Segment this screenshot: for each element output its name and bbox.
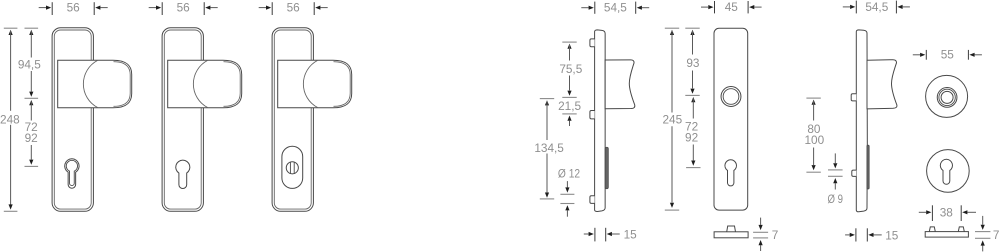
dimension 7 (rosette thickness): [975, 216, 999, 252]
svg-text:100: 100: [804, 133, 824, 147]
svg-text:7: 7: [993, 228, 1000, 242]
screw boss 3 (side view A): [590, 196, 595, 204]
svg-text:21,5: 21,5: [558, 99, 581, 113]
knob rosette Ø 55: [926, 75, 968, 117]
svg-text:56: 56: [67, 1, 81, 15]
svg-text:Ø 12: Ø 12: [558, 167, 580, 181]
dimension Ø 9 (boss diameter, side view B): [827, 153, 843, 205]
dimension 54,5 (side view B width): [843, 0, 910, 14]
handle bearing ring (plate 45): [721, 87, 741, 107]
svg-text:45: 45: [725, 0, 739, 14]
svg-text:93: 93: [686, 56, 700, 70]
svg-text:92: 92: [685, 130, 698, 144]
dimension 45 (width): [701, 0, 762, 14]
dimension 55 (rosette diameter): [913, 48, 982, 62]
cylinder projection bar (side view A): [605, 147, 608, 189]
dimension 80 / 100 (axis to boss, side view B): [804, 98, 824, 172]
key rosette with profile cylinder: [927, 150, 970, 193]
svg-text:92: 92: [25, 131, 38, 145]
dimension Ø 12 (boss diameter): [558, 167, 580, 217]
svg-text:15: 15: [624, 228, 638, 242]
knob profile (side view A): [605, 60, 635, 109]
side view B: rosette-version profile with knob: [856, 30, 867, 212]
dimension 245 (total height, plate 45): [662, 28, 682, 210]
svg-text:55: 55: [941, 48, 955, 62]
svg-text:248: 248: [0, 113, 20, 127]
svg-text:Ø 9: Ø 9: [827, 192, 843, 206]
dimension 56 (width, handle 3): [259, 1, 328, 16]
dimension 38 (key rosette): [919, 205, 976, 221]
dimension 56 (width, handle 2): [149, 1, 218, 16]
dimension 75,5 (boss 1 to axis): [559, 42, 582, 96]
svg-text:94,5: 94,5: [18, 58, 41, 72]
dimension 15 (side view A thickness): [584, 228, 637, 242]
handle unit 3: plate 56 with knob and turn rosette: [272, 28, 352, 212]
dimension 134,5: [534, 99, 564, 199]
svg-text:15: 15: [885, 228, 899, 242]
dimension 72 / 92 (plate 45): [685, 97, 700, 168]
svg-text:245: 245: [662, 113, 682, 127]
dimension 21,5 (axis to boss 2): [558, 99, 581, 126]
knob profile (side view B): [867, 60, 897, 109]
dimension 72 / 92 (axis to cylinder, handle 1): [25, 100, 39, 166]
svg-text:75,5: 75,5: [559, 62, 582, 76]
narrow plate 45 front view: [714, 28, 748, 210]
svg-text:54,5: 54,5: [604, 1, 627, 15]
svg-text:56: 56: [177, 1, 191, 15]
svg-text:7: 7: [772, 228, 779, 242]
svg-text:56: 56: [287, 1, 301, 15]
cross-section of plate 45: [714, 226, 748, 238]
screw boss lower (side view B): [852, 170, 857, 176]
profile cylinder hole (plate 45): [725, 160, 737, 186]
screw boss 1 (side view A): [590, 39, 595, 47]
dimension 15 (side view B thickness): [845, 228, 899, 242]
dimension 248 (total height, handle 1): [0, 28, 20, 211]
dimension 56 (width, handle 1): [39, 1, 108, 16]
dimension 94,5 (top to axis, handle 1): [18, 28, 41, 98]
handle unit 2: plate 56 with knob and profile-cylinder hole: [162, 28, 242, 212]
screw boss 2 (side view A): [590, 111, 595, 119]
cylinder projection bar (side view B): [867, 145, 869, 189]
screw boss upper (side view B): [851, 94, 856, 101]
svg-text:38: 38: [940, 206, 954, 220]
side view A: plate profile with knob: [595, 30, 606, 212]
dimension 93 (top to axis, plate 45): [685, 28, 700, 95]
svg-text:54,5: 54,5: [865, 0, 888, 14]
shared axis tick (side view A): [562, 96, 576, 98]
handle unit 1: plate 56 with knob and profile-cylinder hole: [52, 28, 132, 212]
cross-section of rosette: [925, 227, 968, 237]
dimension 7 (plate thickness): [753, 218, 778, 251]
svg-text:134,5: 134,5: [534, 141, 564, 155]
dimension 54,5 (side view A width): [581, 1, 649, 15]
